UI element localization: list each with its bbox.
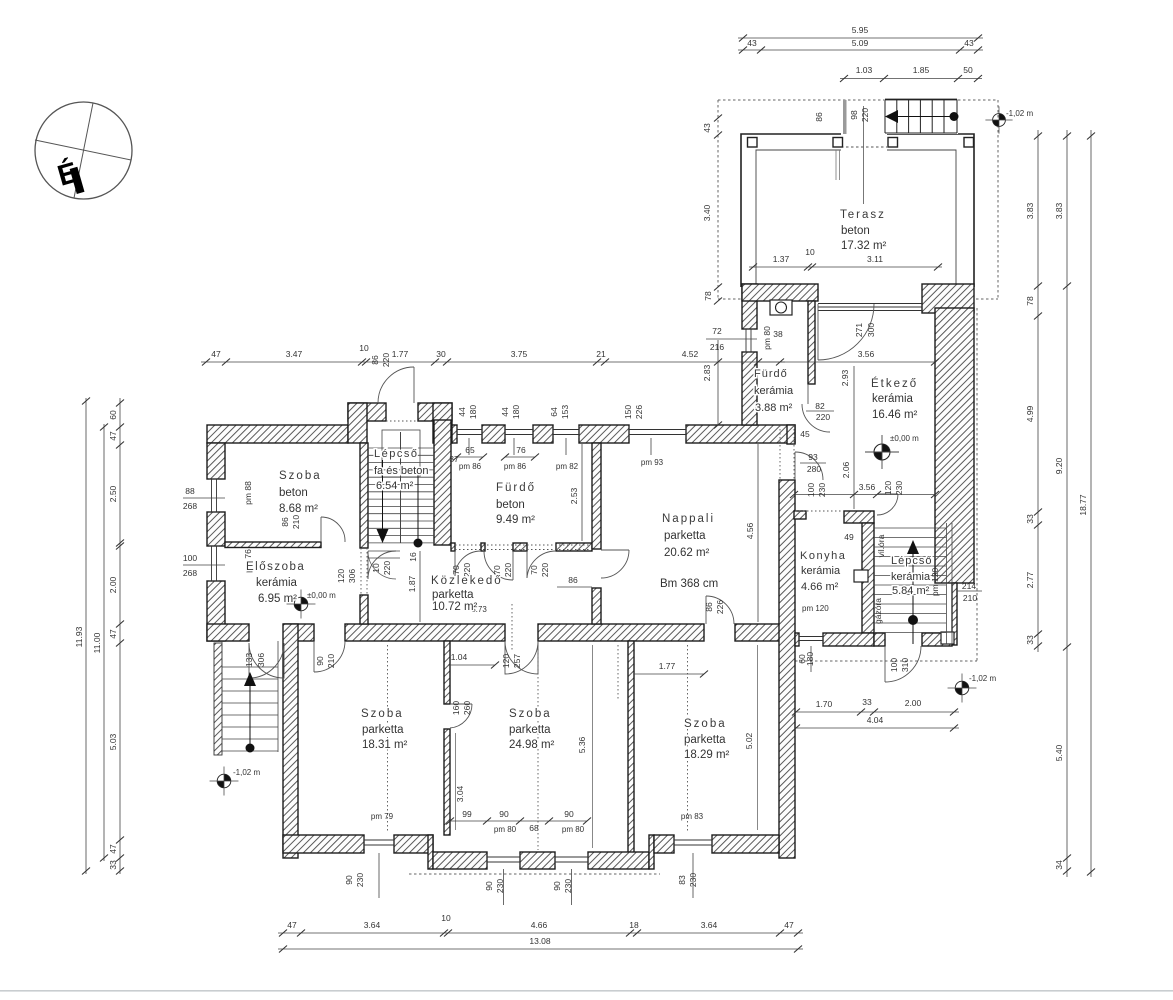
svg-text:3.11: 3.11 — [867, 254, 883, 264]
svg-text:-1,02 m: -1,02 m — [969, 674, 996, 683]
svg-text:1.77: 1.77 — [659, 661, 676, 671]
window top wall w3 — [553, 429, 579, 431]
bottom bump band piece 3 — [588, 852, 649, 869]
dim 214-210 leader — [957, 590, 982, 592]
konyha bottom wall piece 1 — [795, 633, 799, 646]
north compass circle — [35, 102, 132, 199]
svg-text:47: 47 — [211, 349, 221, 359]
kozlekedo vertical dim 1.87 — [419, 551, 421, 622]
svg-text:90: 90 — [552, 881, 562, 891]
room interior dim lines — [592, 645, 594, 848]
svg-text:18: 18 — [629, 920, 639, 930]
svg-text:43: 43 — [964, 38, 974, 48]
terrace slab inner outline — [756, 150, 956, 287]
nappali vertical dim 4.56 — [757, 444, 759, 622]
bottom bump east step — [649, 835, 654, 869]
svg-text:90: 90 — [344, 875, 354, 885]
svg-text:beton: beton — [279, 487, 308, 499]
opening eloszoba-kozlekedo dotted jambs — [360, 548, 362, 595]
bath partition pier b — [481, 543, 485, 551]
konyha bottom wall piece 2 — [823, 633, 874, 646]
svg-text:pm 80: pm 80 — [494, 825, 517, 834]
terrace dim line 1.03-1.85-50 — [840, 78, 982, 80]
svg-text:93: 93 — [808, 452, 818, 462]
terrace passage double line — [835, 150, 837, 180]
SE dims 1.70-33-2.00 — [796, 711, 959, 713]
svg-text:120: 120 — [501, 654, 511, 668]
svg-text:5.36: 5.36 — [577, 736, 587, 753]
bath partition east piece — [556, 543, 592, 551]
svg-text:44: 44 — [457, 407, 467, 417]
svg-text:10: 10 — [359, 343, 369, 353]
wing west wall lower — [742, 352, 757, 425]
svg-text:220: 220 — [382, 561, 392, 575]
svg-text:37: 37 — [449, 454, 459, 464]
bath door 1 — [454, 551, 456, 578]
svg-text:2.93: 2.93 — [840, 369, 850, 386]
entrance stair start circle — [417, 470, 419, 543]
door kozlekedo-nappali — [601, 549, 629, 551]
svg-text:2.83: 2.83 — [702, 364, 712, 381]
entrance stair landing box — [382, 430, 420, 477]
top wall east segment — [686, 425, 795, 443]
room1 dim 1.04 — [448, 664, 495, 666]
svg-text:72: 72 — [712, 326, 722, 336]
elevation marker SE -1.02 — [948, 674, 977, 703]
svg-text:pm 86: pm 86 — [504, 462, 527, 471]
svg-text:beton: beton — [496, 499, 525, 511]
left chain dim — [119, 398, 121, 874]
svg-text:70: 70 — [529, 565, 539, 575]
svg-text:1.85: 1.85 — [913, 65, 930, 75]
svg-text:64: 64 — [549, 407, 559, 417]
kozlekedo door axis dotted — [511, 604, 513, 650]
svg-text:fa és beton: fa és beton — [374, 465, 428, 477]
svg-text:Lépcső: Lépcső — [891, 555, 932, 567]
wing window leader — [706, 338, 757, 340]
roof overhang dashed lines right side — [795, 308, 977, 661]
svg-text:5.09: 5.09 — [852, 38, 869, 48]
terrace stair walk line with arrow and start circle — [891, 116, 954, 118]
svg-text:86: 86 — [568, 575, 578, 585]
svg-text:pm 86: pm 86 — [459, 462, 482, 471]
svg-text:Szoba: Szoba — [509, 708, 552, 720]
svg-text:gázóra: gázóra — [873, 598, 883, 624]
bottom page divider line — [0, 990, 1173, 992]
svg-text:33: 33 — [1025, 514, 1035, 524]
svg-text:280: 280 — [807, 464, 821, 474]
bath vertical dim 2.53 — [581, 444, 583, 541]
svg-text:3.47: 3.47 — [286, 349, 303, 359]
stair west wall upper — [360, 443, 368, 548]
bottom chain dim line — [278, 932, 803, 934]
svg-text:214: 214 — [962, 581, 976, 591]
window bump west — [487, 856, 520, 858]
svg-text:230: 230 — [563, 879, 573, 893]
wing east thick wall — [935, 308, 974, 583]
right chain dim line 1 — [1037, 130, 1039, 652]
svg-text:50: 50 — [963, 65, 973, 75]
svg-text:5.84 m²: 5.84 m² — [892, 585, 930, 597]
svg-text:pm 79: pm 79 — [371, 812, 394, 821]
right dim line 2 — [1066, 130, 1068, 877]
window left wall upper — [211, 479, 213, 512]
nappali west wall lower — [592, 588, 601, 624]
svg-text:parketta: parketta — [664, 530, 706, 542]
stair bottom wall piece 2 — [922, 633, 952, 646]
svg-text:153: 153 — [560, 405, 570, 419]
terrace inner dim 1.37-10-3.11 — [749, 266, 942, 268]
etkezo dim 3.56 lower — [794, 494, 935, 496]
svg-text:2.00: 2.00 — [905, 698, 922, 708]
svg-text:60: 60 — [108, 410, 118, 420]
middle wall band piece 2 — [284, 624, 314, 641]
svg-text:220: 220 — [503, 563, 513, 577]
top wall step pier 45 — [787, 425, 795, 444]
svg-text:16.46 m²: 16.46 m² — [872, 409, 918, 421]
svg-text:90: 90 — [315, 656, 325, 666]
svg-text:78: 78 — [703, 291, 713, 301]
svg-text:16: 16 — [408, 552, 418, 562]
door right stair exit south — [884, 646, 886, 682]
terrace pillar 4 — [964, 138, 974, 148]
bath door 2 — [512, 551, 514, 580]
svg-text:parketta: parketta — [432, 589, 474, 601]
bath keramia door leader — [806, 410, 834, 412]
svg-text:3.40: 3.40 — [702, 204, 712, 221]
middle wall band piece 4 — [538, 624, 704, 641]
room1 axis dotted — [387, 645, 389, 833]
door kozlekedo-room1 — [313, 641, 315, 672]
vil.ora meter box in konyha wall — [854, 570, 868, 582]
wing east wall lower — [952, 583, 957, 645]
svg-text:kerámia: kerámia — [801, 565, 841, 577]
terrace dim line 5.95 — [738, 37, 983, 39]
svg-text:257: 257 — [512, 654, 522, 668]
svg-text:13.08: 13.08 — [529, 936, 551, 946]
partition room1-room2 upper — [444, 641, 450, 704]
svg-text:3.56: 3.56 — [858, 349, 875, 359]
svg-text:2.50: 2.50 — [108, 485, 118, 502]
svg-text:180: 180 — [511, 405, 521, 419]
svg-text:220: 220 — [860, 108, 870, 122]
svg-text:-1,02 m: -1,02 m — [1006, 109, 1033, 118]
svg-text:pm 120: pm 120 — [930, 568, 940, 597]
svg-text:268: 268 — [183, 501, 197, 511]
svg-text:Szoba: Szoba — [361, 708, 404, 720]
left exterior wall lower piece — [207, 581, 225, 641]
bath door axis dotted — [617, 645, 619, 700]
stair bottom wall piece 1 — [874, 633, 885, 646]
glass wall etkezo-terasz — [818, 303, 922, 305]
door kozlekedo-room2 — [505, 641, 538, 674]
svg-text:6.54 m²: 6.54 m² — [376, 480, 414, 492]
SE dim 4.04 — [796, 727, 959, 729]
svg-text:Fürdő: Fürdő — [496, 482, 536, 494]
svg-text:230: 230 — [817, 483, 827, 497]
svg-text:3.64: 3.64 — [364, 920, 381, 930]
right outer dim 18.77 — [1090, 130, 1092, 877]
room2 bottom chain — [450, 820, 587, 822]
svg-text:226: 226 — [634, 405, 644, 419]
svg-text:271: 271 — [854, 323, 864, 337]
stair lower steps — [368, 550, 400, 552]
svg-text:220: 220 — [540, 563, 550, 577]
svg-text:100: 100 — [183, 553, 197, 563]
svg-text:Nappali: Nappali — [662, 513, 715, 525]
left dim 11.00 — [103, 424, 105, 861]
nappali west wall upper — [592, 443, 601, 549]
svg-text:43: 43 — [747, 38, 757, 48]
window bump east — [555, 856, 588, 858]
svg-text:86: 86 — [704, 602, 714, 612]
elevation marker SW stair -1.02 — [210, 767, 239, 796]
svg-text:Előszoba: Előszoba — [246, 561, 305, 573]
svg-text:pm 82: pm 82 — [556, 462, 579, 471]
bath window dim 65 — [457, 456, 483, 458]
partition room1-room2 lower — [444, 729, 450, 835]
svg-text:10: 10 — [805, 247, 815, 257]
wing west dim 2.83 — [717, 340, 719, 425]
svg-text:88: 88 — [185, 486, 195, 496]
svg-text:33: 33 — [862, 697, 872, 707]
konyha top wall stub — [794, 511, 806, 519]
svg-text:kerámia: kerámia — [754, 385, 794, 397]
partition room2-room3 — [628, 641, 634, 853]
svg-text:±0,00 m: ±0,00 m — [307, 591, 336, 600]
window leader lines bottom — [378, 853, 380, 898]
svg-text:Bm 368 cm: Bm 368 cm — [660, 578, 718, 590]
svg-text:306: 306 — [347, 569, 357, 583]
porch left leg — [348, 403, 367, 443]
svg-text:1.03: 1.03 — [856, 65, 873, 75]
wing west wall upper — [742, 284, 757, 329]
svg-text:120: 120 — [336, 569, 346, 583]
terrace stair landing dashed edge — [841, 146, 887, 148]
terrace side passage gray wall stub — [843, 100, 847, 134]
middle wall band piece east — [735, 624, 782, 641]
stair bottom landing white box — [941, 632, 954, 644]
bottom bump west step — [428, 835, 433, 869]
left window leader lines — [183, 497, 225, 499]
svg-text:220: 220 — [381, 353, 391, 367]
svg-text:4.04: 4.04 — [867, 715, 884, 725]
bottom total dim 13.08 — [278, 948, 803, 950]
svg-text:260: 260 — [462, 701, 472, 715]
svg-text:3.83: 3.83 — [1054, 202, 1064, 219]
window top wall w4 nappali — [629, 429, 686, 431]
east main wall — [779, 480, 795, 858]
bottom wall west piece 2 — [394, 835, 433, 853]
right stair guide line arrow up — [912, 551, 914, 644]
partition Szoba-Eloszoba — [225, 542, 321, 548]
svg-text:kerámia: kerámia — [872, 393, 914, 405]
svg-text:1.77: 1.77 — [392, 349, 409, 359]
svg-text:210: 210 — [963, 593, 977, 603]
konyha hall dotted line — [795, 510, 844, 512]
svg-text:33: 33 — [1025, 635, 1035, 645]
door etkezo terrace big swing — [817, 304, 819, 360]
pm93 window leaders — [650, 438, 652, 455]
top wall pier between windows 3-4 — [579, 425, 629, 443]
porch top-left block — [348, 403, 386, 421]
svg-text:9.20: 9.20 — [1054, 457, 1064, 474]
svg-text:82: 82 — [815, 401, 825, 411]
right stair start circle — [908, 615, 918, 625]
svg-text:90: 90 — [564, 809, 574, 819]
svg-text:2.77: 2.77 — [1025, 571, 1035, 588]
roof overhang dashed box around terrace — [718, 100, 998, 299]
svg-text:76: 76 — [516, 445, 526, 455]
left exterior wall middle piece — [207, 512, 225, 546]
door bath keramia — [802, 404, 830, 432]
middle wall band piece 3 — [345, 624, 505, 641]
door hall to right stair — [877, 493, 898, 495]
svg-text:65: 65 — [465, 445, 475, 455]
svg-text:2.53: 2.53 — [569, 487, 579, 504]
svg-text:beton: beton — [841, 225, 870, 237]
svg-text:9.49 m²: 9.49 m² — [496, 514, 535, 526]
porch right leg — [433, 403, 452, 443]
top wall pier between windows 1-2 — [482, 425, 505, 443]
svg-text:kerámia: kerámia — [256, 577, 298, 589]
svg-text:pm 120: pm 120 — [802, 604, 829, 613]
svg-text:Szoba: Szoba — [684, 718, 727, 730]
svg-text:21: 21 — [596, 349, 606, 359]
room3 dim 1.77 — [634, 673, 704, 675]
roof overhang dashed line bottom bump — [409, 873, 660, 875]
svg-text:pm 80: pm 80 — [762, 326, 772, 350]
svg-text:47: 47 — [784, 920, 794, 930]
svg-text:86: 86 — [370, 355, 380, 365]
window konyha south — [799, 636, 823, 638]
svg-text:2.06: 2.06 — [841, 461, 851, 478]
svg-text:18.29 m²: 18.29 m² — [684, 749, 730, 761]
chimney flue box with circle — [770, 300, 792, 315]
svg-text:47: 47 — [108, 844, 118, 854]
svg-text:1.04: 1.04 — [451, 652, 468, 662]
window top wall w1 — [457, 429, 482, 431]
svg-text:±0,00 m: ±0,00 m — [890, 434, 919, 443]
window wing west wall — [745, 329, 747, 352]
svg-text:11.93: 11.93 — [74, 626, 84, 647]
terrace pillar 2 — [833, 138, 843, 148]
svg-text:pm 80: pm 80 — [562, 825, 585, 834]
svg-text:1.70: 1.70 — [816, 699, 833, 709]
svg-text:86: 86 — [814, 112, 824, 122]
svg-text:-1,02 m: -1,02 m — [233, 768, 260, 777]
bath window dim 76 — [505, 456, 535, 458]
svg-text:4.66: 4.66 — [531, 920, 548, 930]
etkezo dim 3.56 upper — [758, 361, 935, 363]
svg-text:86: 86 — [280, 517, 290, 527]
svg-text:30: 30 — [436, 349, 446, 359]
svg-text:160: 160 — [451, 701, 461, 715]
bottom wall east piece 2 — [712, 835, 779, 853]
svg-text:18.77: 18.77 — [1078, 494, 1088, 516]
terrace entry stair — [884, 96, 958, 134]
svg-text:230: 230 — [495, 879, 505, 893]
svg-text:150: 150 — [623, 405, 633, 419]
svg-text:100: 100 — [889, 658, 899, 672]
svg-text:5.40: 5.40 — [1054, 744, 1064, 761]
svg-text:Fürdő: Fürdő — [754, 368, 788, 380]
external stair guide arrow — [249, 684, 251, 748]
dimension ticks — [82, 35, 1095, 953]
entrance stair guide line and arrow down — [382, 460, 384, 534]
top main dimension line — [201, 361, 785, 363]
window bottom east room — [674, 839, 712, 841]
svg-text:pm 83: pm 83 — [681, 812, 704, 821]
svg-text:310: 310 — [900, 658, 910, 672]
french door eloszoba exterior — [249, 643, 284, 678]
svg-text:5.95: 5.95 — [852, 25, 869, 35]
svg-text:78: 78 — [1025, 296, 1035, 306]
svg-text:49: 49 — [844, 532, 854, 542]
west lower exterior wall — [283, 624, 298, 858]
svg-text:220: 220 — [816, 412, 830, 422]
svg-text:133: 133 — [244, 653, 254, 667]
svg-text:43: 43 — [702, 123, 712, 133]
svg-text:4.66 m²: 4.66 m² — [801, 581, 839, 593]
svg-text:3.88 m²: 3.88 m² — [755, 402, 793, 414]
konyha top wall block — [844, 511, 874, 523]
svg-text:47: 47 — [108, 629, 118, 639]
svg-text:120: 120 — [883, 481, 893, 495]
svg-text:4.56: 4.56 — [745, 522, 755, 539]
svg-text:230: 230 — [355, 873, 365, 887]
entrance door at porch — [413, 367, 415, 403]
wing top wall — [742, 284, 818, 301]
svg-text:3.64: 3.64 — [701, 920, 718, 930]
right stair side rails — [946, 523, 948, 644]
bottom wall east piece 1 — [654, 835, 674, 853]
svg-text:216: 216 — [710, 342, 724, 352]
konyha east wall — [862, 523, 874, 633]
svg-text:4.99: 4.99 — [1025, 405, 1035, 422]
svg-text:44: 44 — [500, 407, 510, 417]
stair divider — [400, 432, 402, 543]
svg-text:parketta: parketta — [362, 724, 404, 736]
terrace slab outer outline — [741, 134, 974, 287]
svg-text:11.00: 11.00 — [92, 632, 102, 653]
svg-text:3.75: 3.75 — [511, 349, 528, 359]
svg-text:230: 230 — [894, 481, 904, 495]
svg-text:70: 70 — [451, 565, 461, 575]
svg-text:Közlekedő: Közlekedő — [431, 575, 503, 587]
svg-text:Terasz: Terasz — [840, 209, 886, 221]
svg-text:99: 99 — [462, 809, 472, 819]
svg-text:pm 93: pm 93 — [641, 458, 664, 467]
svg-text:18.31 m²: 18.31 m² — [362, 739, 408, 751]
svg-text:70: 70 — [492, 565, 502, 575]
svg-text:34: 34 — [1054, 860, 1064, 870]
svg-text:Étkező: Étkező — [871, 377, 918, 390]
room3 axis dotted — [687, 645, 689, 833]
svg-text:4.52: 4.52 — [682, 349, 699, 359]
svg-text:5.02: 5.02 — [744, 732, 754, 749]
stair east wall — [434, 420, 451, 545]
svg-text:47: 47 — [108, 431, 118, 441]
porch top-right block — [418, 403, 452, 421]
svg-text:3.56: 3.56 — [859, 482, 876, 492]
svg-text:230: 230 — [688, 873, 698, 887]
svg-text:90: 90 — [499, 809, 509, 819]
compass north letter E-acute — [54, 154, 85, 197]
left exterior wall upper piece — [207, 443, 225, 479]
svg-text:6.95 m²: 6.95 m² — [258, 593, 297, 605]
bottom wall west piece 1 — [283, 835, 364, 853]
